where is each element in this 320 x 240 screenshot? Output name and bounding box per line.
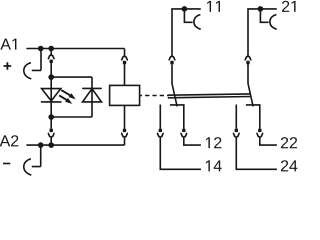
connector pin (LED branch) [50, 60, 53, 64]
wire pin to coil [124, 64, 126, 85]
wire A2 rail [26, 144, 124, 146]
connector pin (22) [258, 129, 261, 132]
protection diode D2 cathode bar [82, 87, 102, 89]
connector pin (contact 2) [246, 61, 249, 65]
connector pin (A2 branch) [50, 129, 53, 132]
terminal label A1 [0, 39, 16, 50]
node A1-clamp junction [38, 46, 44, 52]
connector pin (24) [235, 129, 238, 132]
contact bracket 2 (NC) [246, 105, 260, 129]
relay coil K1 [110, 85, 140, 105]
protection diode D2 triangle [83, 89, 102, 102]
wire 22 lead [260, 137, 277, 145]
wire COM 1 [171, 64, 173, 83]
wire 12 lead [184, 137, 201, 145]
wire clamp A1 riser [40, 49, 42, 71]
connector socket (coil bottom) [121, 133, 128, 137]
wire socket to A2 rail [50, 137, 52, 145]
connector socket (14) [157, 133, 164, 137]
wire pin to rail [50, 63, 52, 77]
wire terminal 11 top [172, 9, 201, 56]
wire dot to pin [50, 117, 52, 129]
connector socket (contact 2) [245, 56, 252, 60]
connector socket (22) [256, 133, 263, 137]
wire 14 lead [160, 137, 201, 169]
wire bottom rail of coil network [51, 116, 92, 118]
connector pin (contact 1) [170, 61, 173, 65]
terminal clamp A1 [24, 63, 41, 79]
connector pin (coil top) [123, 61, 126, 65]
node A2-clamp junction [38, 142, 44, 148]
label 21 [282, 1, 296, 12]
terminal clamp 11 [184, 9, 200, 29]
node 11 junction [182, 6, 188, 12]
terminal clamp 21 [260, 9, 276, 29]
wire LED axis [50, 77, 52, 117]
minus polarity mark [3, 163, 10, 165]
contact arm 2 [248, 84, 253, 107]
contact arm 1 [172, 84, 177, 107]
contact bracket 1 (NC) [170, 105, 184, 129]
label 22 [281, 137, 297, 148]
connector socket (coil top) [121, 56, 128, 60]
terminal label A2 [0, 135, 18, 146]
protection diode D2 axis wire [91, 77, 93, 117]
wire branch stub [50, 49, 52, 56]
wire terminal 21 top [248, 9, 277, 56]
label 24 [281, 160, 298, 171]
node A2-branch junction [48, 142, 54, 148]
connector socket (12) [180, 133, 187, 137]
node top rail junction [48, 74, 54, 80]
contact stub 2 (NO) [235, 105, 237, 129]
wire A1 down to coil connector [124, 49, 126, 57]
connector pin (14) [159, 129, 162, 132]
wire socket to A2 rail corner [124, 137, 126, 145]
plus polarity mark [4, 62, 12, 70]
actuator bar lower line [168, 97, 251, 98]
connector pin (12) [182, 129, 185, 132]
LED D1 triangle [42, 89, 61, 101]
connector socket (LED branch) [48, 55, 55, 59]
wire top rail of coil network [51, 76, 92, 78]
label 12 [206, 137, 221, 148]
connector socket (24) [233, 133, 240, 137]
mechanical link dashed line [140, 95, 169, 97]
label 11 [207, 1, 220, 12]
wire clamp A2 riser [40, 145, 42, 167]
wire 24 lead [236, 137, 277, 169]
connector socket (contact 1) [169, 56, 176, 60]
LED emission arrow 2 [59, 95, 72, 104]
label 14 [206, 160, 222, 171]
node 21 junction [258, 6, 264, 12]
terminal clamp A2 [24, 159, 41, 175]
wire coil bottom [124, 105, 126, 128]
node A1-branch junction [48, 46, 54, 52]
node bottom rail junction [48, 114, 54, 120]
contact stub 1 (NO) [159, 105, 161, 129]
connector pin (coil bottom) [123, 129, 126, 132]
wire A1 rail [26, 48, 124, 50]
wire COM 2 [247, 64, 249, 83]
LED emission arrow 1 [61, 90, 75, 99]
LED D1 cathode bar [41, 101, 62, 103]
connector socket (A2 branch) [48, 133, 55, 137]
actuator bar upper line [168, 94, 251, 95]
